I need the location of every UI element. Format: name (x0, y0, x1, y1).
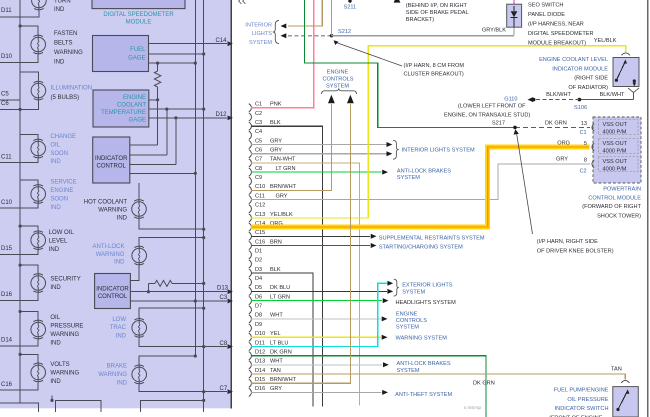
svg-text:IND: IND (54, 60, 65, 66)
svg-text:GRY/BLK: GRY/BLK (482, 27, 506, 33)
svg-text:VOLTS: VOLTS (50, 362, 69, 368)
svg-text:BLK: BLK (270, 120, 281, 126)
svg-text:VSS OUT: VSS OUT (603, 159, 628, 165)
svg-text:TRAC: TRAC (110, 325, 127, 331)
svg-text:ANTI-LOCK BRAKES: ANTI-LOCK BRAKES (397, 361, 451, 367)
svg-text:FUEL: FUEL (130, 47, 146, 53)
svg-text:C10: C10 (1, 200, 13, 206)
svg-text:VSS OUT: VSS OUT (603, 141, 628, 147)
svg-text:s mst-sp: s mst-sp (464, 405, 481, 410)
svg-text:DK GRN: DK GRN (270, 350, 292, 356)
svg-text:S211: S211 (344, 4, 357, 10)
svg-text:D11: D11 (1, 8, 12, 14)
svg-text:C16: C16 (255, 239, 265, 245)
svg-text:GRY: GRY (270, 386, 282, 392)
svg-text:GAGE: GAGE (128, 56, 145, 62)
svg-text:TAN: TAN (611, 367, 622, 373)
svg-text:C6: C6 (255, 148, 262, 154)
svg-text:IND: IND (50, 340, 61, 346)
svg-text:C11: C11 (1, 154, 12, 160)
svg-text:C1: C1 (255, 102, 262, 108)
svg-text:BRACKET): BRACKET) (406, 17, 434, 23)
svg-text:ANTI-LOCK: ANTI-LOCK (92, 244, 124, 250)
svg-text:IND: IND (50, 379, 61, 385)
svg-text:D5: D5 (255, 285, 262, 291)
svg-text:SERVICE: SERVICE (50, 180, 76, 186)
svg-text:OIL: OIL (50, 142, 60, 148)
svg-text:ANTI-THEFT SYSTEM: ANTI-THEFT SYSTEM (395, 392, 452, 398)
svg-text:C3: C3 (255, 120, 262, 126)
svg-text:IND: IND (50, 285, 61, 291)
svg-text:S217: S217 (492, 120, 505, 126)
svg-text:(I/P HARNESS, NEAR: (I/P HARNESS, NEAR (528, 21, 584, 27)
svg-text:YEL: YEL (270, 331, 281, 337)
svg-text:STARTING/CHARGING SYSTEM: STARTING/CHARGING SYSTEM (379, 245, 463, 251)
svg-text:ENGINE: ENGINE (327, 70, 349, 76)
svg-text:SYSTEM: SYSTEM (397, 175, 420, 181)
svg-text:4000 P/M: 4000 P/M (603, 148, 627, 154)
svg-text:WARNING: WARNING (54, 50, 83, 56)
svg-text:INTERIOR LIGHTS SYSTEM: INTERIOR LIGHTS SYSTEM (402, 147, 475, 153)
svg-text:C15: C15 (255, 230, 265, 236)
svg-text:EXTERIOR LIGHTS: EXTERIOR LIGHTS (402, 283, 453, 289)
svg-text:DIGITAL SPEEDOMETER: DIGITAL SPEEDOMETER (103, 12, 174, 18)
svg-text:C7: C7 (220, 386, 228, 392)
svg-text:VSS OUT: VSS OUT (603, 122, 628, 128)
svg-text:BLK/WHT: BLK/WHT (546, 92, 571, 98)
svg-text:ENGINE COOLANT LEVEL: ENGINE COOLANT LEVEL (539, 57, 608, 63)
svg-text:C7: C7 (255, 157, 262, 163)
svg-text:SUPPLEMENTAL RESTRAINTS SYSTEM: SUPPLEMENTAL RESTRAINTS SYSTEM (379, 235, 485, 241)
svg-text:C2: C2 (255, 111, 262, 117)
svg-text:D12: D12 (255, 350, 265, 356)
svg-text:HOT COOLANT: HOT COOLANT (84, 200, 128, 206)
svg-text:CONTROL: CONTROL (97, 164, 127, 170)
svg-text:D14: D14 (255, 368, 265, 374)
svg-text:TEMPERATURE: TEMPERATURE (101, 110, 146, 116)
svg-text:D16: D16 (255, 386, 265, 392)
svg-text:GRY: GRY (270, 148, 282, 154)
svg-text:IND: IND (114, 260, 125, 266)
svg-text:4000 P/M: 4000 P/M (603, 166, 627, 172)
svg-text:LEVEL: LEVEL (49, 238, 68, 244)
svg-text:(I/P HARN, RIGHT SIDE: (I/P HARN, RIGHT SIDE (537, 239, 598, 245)
svg-text:CONTROLS: CONTROLS (322, 77, 353, 83)
svg-text:DK GRN: DK GRN (545, 120, 567, 126)
svg-text:ENGINE: ENGINE (123, 95, 146, 101)
svg-text:(LOWER LEFT FRONT OF: (LOWER LEFT FRONT OF (458, 104, 526, 110)
svg-text:D12: D12 (216, 112, 228, 118)
svg-text:INDICATOR SWITCH: INDICATOR SWITCH (555, 406, 609, 412)
svg-text:8: 8 (584, 158, 587, 164)
svg-text:BRN: BRN (270, 239, 282, 245)
svg-text:C8: C8 (255, 166, 262, 172)
svg-text:(I/P HARN, 8 CM FROM: (I/P HARN, 8 CM FROM (404, 63, 465, 69)
svg-text:TURN: TURN (54, 0, 71, 5)
svg-text:COOLANT: COOLANT (117, 103, 146, 109)
svg-text:C4: C4 (255, 129, 262, 135)
svg-text:SEO SWITCH: SEO SWITCH (528, 2, 563, 8)
svg-text:D13: D13 (255, 359, 265, 365)
svg-text:BRN/WHT: BRN/WHT (270, 377, 297, 383)
svg-text:WARNING: WARNING (98, 372, 127, 378)
svg-text:D14: D14 (1, 338, 13, 344)
svg-text:BRAKE: BRAKE (107, 364, 127, 370)
svg-text:LT GRN: LT GRN (276, 166, 296, 172)
svg-text:WHT: WHT (270, 359, 283, 365)
svg-text:D4: D4 (255, 276, 262, 282)
svg-text:MODULE BREAKOUT): MODULE BREAKOUT) (528, 40, 586, 46)
svg-text:DK GRN: DK GRN (473, 381, 495, 387)
svg-text:LOW OIL: LOW OIL (49, 230, 75, 236)
svg-text:C10: C10 (255, 184, 265, 190)
svg-text:LOW: LOW (112, 317, 126, 323)
svg-text:D13: D13 (217, 286, 229, 292)
svg-text:PNK: PNK (270, 102, 282, 108)
svg-text:ENGINE: ENGINE (396, 312, 418, 318)
svg-text:C2: C2 (580, 169, 587, 175)
svg-text:IND: IND (50, 205, 61, 211)
svg-text:D8: D8 (255, 313, 262, 319)
svg-text:TAN: TAN (270, 368, 281, 374)
svg-text:C11: C11 (255, 193, 265, 199)
svg-text:D9: D9 (255, 322, 262, 328)
svg-text:D15: D15 (255, 377, 265, 383)
svg-text:5: 5 (584, 141, 587, 147)
svg-text:FASTEN: FASTEN (54, 31, 77, 37)
svg-text:S212: S212 (338, 29, 351, 35)
svg-text:INDICATOR: INDICATOR (95, 156, 128, 162)
svg-text:CONTROLS: CONTROLS (396, 318, 427, 324)
svg-text:IND: IND (49, 247, 60, 253)
svg-text:C3: C3 (220, 295, 228, 301)
svg-text:D10: D10 (1, 54, 13, 60)
svg-text:POWERTRAIN: POWERTRAIN (603, 187, 641, 193)
svg-text:D11: D11 (255, 340, 265, 346)
svg-text:S106: S106 (574, 105, 587, 111)
svg-text:(RIGHT SIDE: (RIGHT SIDE (574, 76, 608, 82)
svg-text:SYSTEM: SYSTEM (402, 289, 425, 295)
svg-text:GRY: GRY (270, 138, 282, 144)
svg-text:ORG: ORG (557, 140, 570, 146)
svg-text:WARNING: WARNING (50, 332, 79, 338)
svg-text:WARNING: WARNING (98, 208, 127, 214)
svg-text:IND: IND (50, 159, 61, 165)
svg-text:C16: C16 (1, 382, 13, 388)
svg-text:SHOCK TOWER): SHOCK TOWER) (597, 214, 641, 220)
svg-text:DIGITAL SPEEDOMETER: DIGITAL SPEEDOMETER (528, 31, 594, 37)
svg-text:OF DRIVER KNEE BOLSTER): OF DRIVER KNEE BOLSTER) (537, 249, 614, 255)
svg-text:D3: D3 (255, 267, 262, 273)
svg-text:PANEL DIODE: PANEL DIODE (528, 12, 565, 18)
svg-text:MODULE: MODULE (126, 20, 152, 26)
svg-text:HEADLIGHTS SYSTEM: HEADLIGHTS SYSTEM (396, 300, 457, 306)
svg-text:D15: D15 (1, 246, 13, 252)
svg-text:D1: D1 (255, 249, 262, 255)
svg-text:D16: D16 (1, 292, 13, 298)
svg-text:C12: C12 (255, 203, 265, 209)
svg-text:ENGINE, ON TRANSAXLE STUD): ENGINE, ON TRANSAXLE STUD) (444, 112, 530, 118)
svg-text:DK BLU: DK BLU (270, 285, 290, 291)
svg-text:GAGE: GAGE (129, 118, 146, 124)
svg-text:INTERIOR: INTERIOR (245, 22, 272, 28)
svg-text:INDICATOR: INDICATOR (96, 287, 129, 293)
svg-text:WHT: WHT (270, 313, 283, 319)
svg-text:C6: C6 (1, 101, 9, 107)
svg-text:IND: IND (117, 380, 128, 386)
svg-text:BELTS: BELTS (54, 41, 73, 47)
svg-text:BRN/WHT: BRN/WHT (270, 184, 297, 190)
svg-text:G110: G110 (504, 96, 517, 102)
svg-text:CHANGE: CHANGE (50, 134, 76, 140)
svg-text:CONTROL MODULE: CONTROL MODULE (588, 195, 641, 201)
svg-text:SIDE OF BRAKE PEDAL: SIDE OF BRAKE PEDAL (406, 10, 469, 16)
svg-text:WARNING: WARNING (50, 371, 79, 377)
svg-text:IND: IND (117, 215, 128, 221)
svg-text:BLK: BLK (270, 267, 281, 273)
svg-text:C13: C13 (255, 212, 265, 218)
svg-text:FUEL PUMP/ENGINE: FUEL PUMP/ENGINE (554, 388, 609, 394)
svg-text:YEL/BLK: YEL/BLK (594, 38, 617, 44)
svg-text:C14: C14 (216, 38, 228, 44)
svg-text:4000 P/M: 4000 P/M (603, 129, 627, 135)
svg-text:TAN-WHT: TAN-WHT (270, 157, 296, 163)
svg-text:D6: D6 (255, 294, 262, 300)
svg-text:D10: D10 (255, 331, 265, 337)
svg-text:PRESSURE: PRESSURE (50, 324, 83, 330)
svg-text:OF RADIATOR): OF RADIATOR) (568, 85, 608, 91)
svg-text:SYSTEM: SYSTEM (396, 325, 419, 331)
svg-text:C8: C8 (220, 341, 228, 347)
svg-text:LIGHTS: LIGHTS (252, 31, 272, 37)
svg-text:D7: D7 (255, 304, 262, 310)
svg-text:SOON: SOON (50, 197, 68, 203)
svg-text:CONTROL: CONTROL (98, 294, 128, 300)
svg-text:SECURITY: SECURITY (50, 277, 80, 283)
svg-text:SYSTEM: SYSTEM (326, 84, 349, 90)
svg-text:C9: C9 (255, 175, 262, 181)
svg-text:WARNING: WARNING (96, 252, 125, 258)
svg-text:(5 BULBS): (5 BULBS) (51, 95, 80, 101)
svg-text:SYSTEM: SYSTEM (397, 368, 420, 374)
svg-text:ILLUMINATION: ILLUMINATION (51, 86, 93, 92)
svg-text:D2: D2 (255, 258, 262, 264)
svg-text:OIL: OIL (50, 315, 60, 321)
svg-text:IND: IND (54, 7, 65, 13)
svg-text:LT GRN: LT GRN (270, 294, 290, 300)
svg-text:CLUSTER BREAKOUT): CLUSTER BREAKOUT) (404, 72, 464, 78)
svg-text:IND: IND (116, 334, 127, 340)
svg-text:WARNING SYSTEM: WARNING SYSTEM (396, 336, 448, 342)
svg-text:OIL PRESSURE: OIL PRESSURE (567, 397, 608, 403)
svg-text:GRY: GRY (276, 193, 288, 199)
svg-text:SYSTEM: SYSTEM (249, 40, 272, 46)
svg-text:(FORWARD OF RIGHT: (FORWARD OF RIGHT (582, 204, 641, 210)
svg-text:(BEHIND I/P, ON RIGHT: (BEHIND I/P, ON RIGHT (406, 3, 468, 9)
svg-text:C1: C1 (580, 130, 587, 136)
svg-text:BLK/WHT: BLK/WHT (600, 92, 625, 98)
svg-text:C5: C5 (255, 138, 262, 144)
svg-text:YEL/BLK: YEL/BLK (270, 212, 293, 218)
svg-text:INDICATOR MODULE: INDICATOR MODULE (552, 66, 608, 72)
svg-text:ANTI-LOCK BRAKES: ANTI-LOCK BRAKES (397, 168, 451, 174)
svg-text:13: 13 (581, 121, 587, 127)
svg-text:LT BLU: LT BLU (270, 340, 288, 346)
svg-text:C5: C5 (1, 91, 9, 97)
svg-text:GRY: GRY (556, 157, 568, 163)
svg-text:ENGINE: ENGINE (50, 188, 73, 194)
svg-text:SOON: SOON (50, 151, 68, 157)
